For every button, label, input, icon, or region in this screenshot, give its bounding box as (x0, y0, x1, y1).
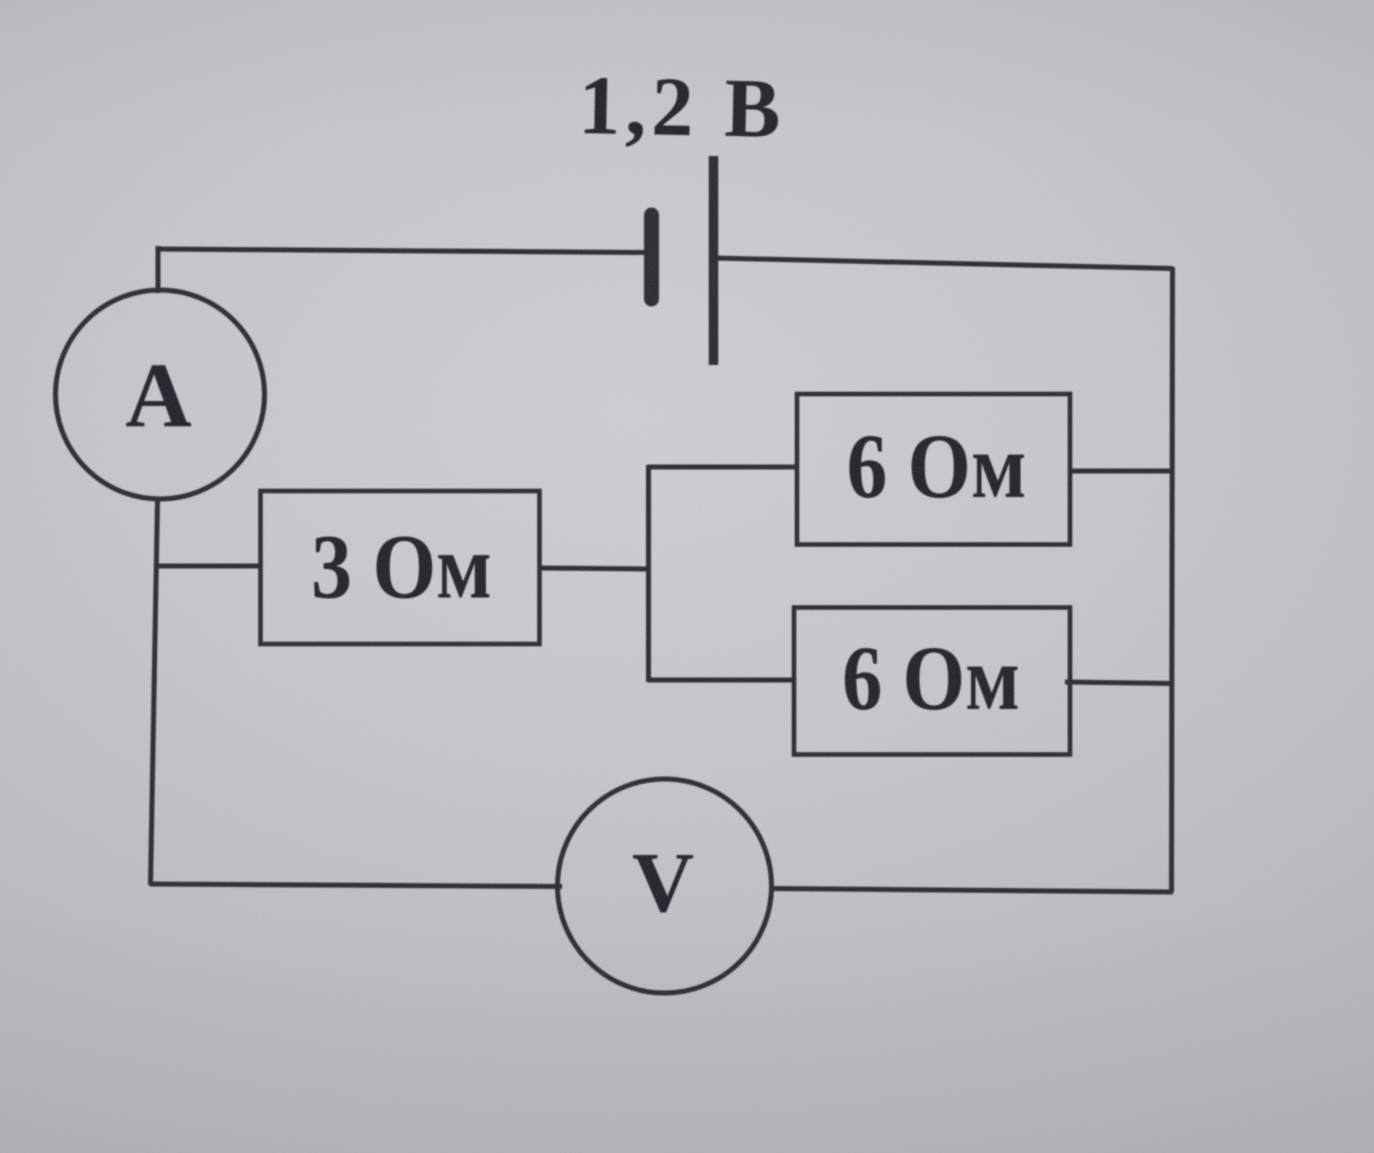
wire right rail vertical (1172, 267, 1173, 892)
wire top right (battery to right rail) (714, 258, 1173, 269)
battery GB1 short thick plate (negative) (644, 215, 659, 299)
wire R2 output to right rail (1068, 469, 1173, 474)
wire resistor R1 output to branch node (539, 568, 650, 569)
resistor R1 box 3 Ом (261, 491, 540, 644)
wire bottom branch into R3 (648, 678, 796, 683)
wire R3 output to right rail (1065, 682, 1172, 684)
wire top branch into R2 (648, 465, 799, 470)
voltmeter V circle (558, 779, 772, 993)
wire junction to resistor R1 input (155, 564, 262, 569)
wire top left (ammeter to battery) (156, 249, 647, 253)
wire bottom left (left rail to voltmeter) (150, 884, 563, 887)
resistor R3 box 6 Ом (bottom) (794, 608, 1070, 755)
wire branch node vertical split (646, 465, 651, 682)
wire left rail vertical (ammeter to bottom) (151, 500, 158, 885)
wire ammeter top stub (156, 246, 161, 293)
wire bottom right (voltmeter to right rail) (771, 889, 1173, 893)
battery GB1 long thin plate (positive) (709, 156, 719, 365)
ammeter A circle (56, 290, 265, 499)
resistor R2 box 6 Ом (top) (797, 394, 1070, 545)
